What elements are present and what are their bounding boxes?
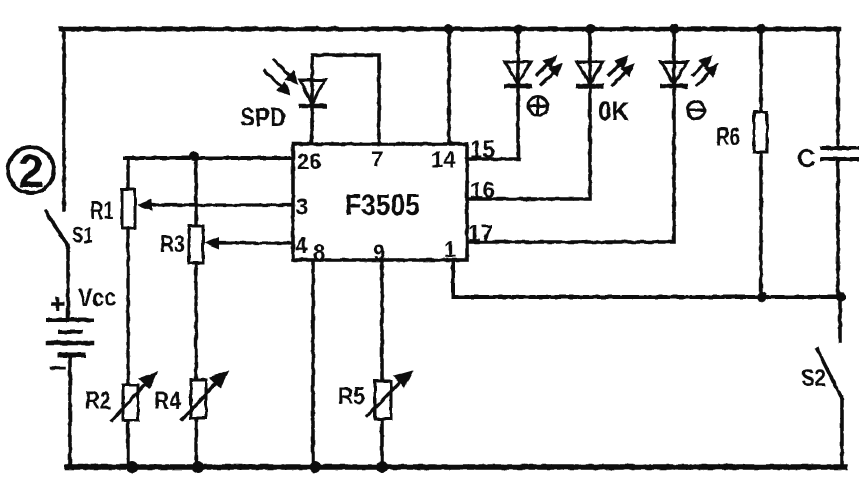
svg-text:8: 8: [313, 240, 325, 265]
svg-text:Vcc: Vcc: [78, 284, 116, 312]
svg-text:R4: R4: [154, 387, 181, 415]
svg-text:7: 7: [371, 147, 383, 172]
svg-text:0K: 0K: [598, 96, 629, 126]
svg-text:R6: R6: [716, 123, 740, 151]
svg-text:R1: R1: [90, 195, 114, 225]
svg-text:17: 17: [468, 220, 493, 246]
svg-text:9: 9: [373, 240, 385, 265]
svg-text:16: 16: [470, 177, 495, 203]
svg-text:R3: R3: [160, 231, 185, 258]
svg-text:C: C: [797, 143, 816, 173]
svg-text:R2: R2: [85, 387, 111, 415]
svg-text:26: 26: [297, 149, 321, 174]
svg-text:2: 2: [18, 145, 44, 197]
svg-text:14: 14: [431, 147, 456, 172]
svg-text:1: 1: [444, 237, 456, 262]
svg-text:4: 4: [295, 233, 308, 258]
svg-text:15: 15: [470, 136, 495, 164]
svg-text:S1: S1: [72, 222, 93, 249]
svg-text:S2: S2: [801, 365, 826, 392]
svg-text:R5: R5: [338, 383, 365, 410]
svg-text:3: 3: [296, 194, 308, 219]
svg-text:SPD: SPD: [240, 102, 286, 132]
svg-text:F3505: F3505: [345, 189, 420, 222]
